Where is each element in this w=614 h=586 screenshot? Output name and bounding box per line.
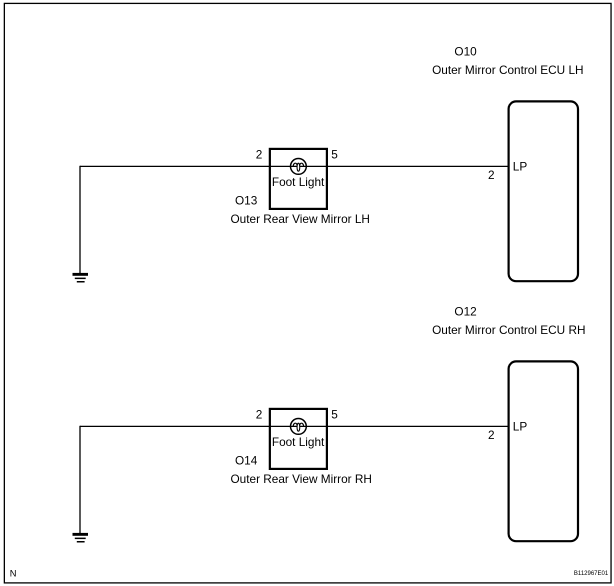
ground: [73, 533, 89, 543]
svg-text:Foot Light: Foot Light: [272, 435, 325, 449]
svg-text:Outer Rear View Mirror RH: Outer Rear View Mirror RH: [231, 472, 372, 486]
svg-text:5: 5: [331, 148, 338, 162]
foot light O13 box: [270, 149, 327, 209]
svg-text:O14: O14: [235, 453, 258, 467]
svg-text:N: N: [10, 569, 17, 579]
wire: through foot light O14: [270, 425, 327, 427]
svg-text:5: 5: [331, 408, 338, 422]
lamp symbol (foot light bulb): [291, 159, 307, 175]
svg-text:2: 2: [488, 168, 495, 182]
svg-text:O10: O10: [454, 44, 477, 58]
svg-text:LP: LP: [513, 420, 528, 434]
wire: ground riser to foot light O13 pin 2: [80, 165, 270, 167]
ECU connector O12: [509, 361, 578, 541]
wire: through foot light O13: [270, 165, 327, 167]
svg-text:Outer Mirror Control ECU LH: Outer Mirror Control ECU LH: [432, 63, 583, 77]
svg-text:LP: LP: [513, 160, 528, 174]
svg-text:O13: O13: [235, 193, 258, 207]
svg-text:Outer Mirror Control ECU RH: Outer Mirror Control ECU RH: [432, 323, 585, 337]
svg-text:2: 2: [256, 408, 263, 422]
ground: [73, 273, 89, 283]
wire: vertical drop to ground: [79, 166, 81, 274]
wire: vertical drop to ground: [79, 426, 81, 534]
wire: ground riser to foot light O14 pin 2: [80, 425, 270, 427]
lamp symbol (foot light bulb): [291, 419, 307, 435]
foot light O14 box: [270, 409, 327, 469]
svg-text:2: 2: [488, 428, 495, 442]
svg-text:Outer Rear View Mirror LH: Outer Rear View Mirror LH: [231, 212, 370, 226]
svg-text:B112967E01: B112967E01: [574, 571, 609, 577]
wire: foot light O14 pin 5 to ECU O12 pin 2: [326, 425, 508, 427]
svg-text:O12: O12: [454, 304, 476, 318]
svg-text:2: 2: [256, 148, 263, 162]
ECU connector O10: [509, 101, 578, 281]
wire: foot light O13 pin 5 to ECU O10 pin 2: [326, 165, 508, 167]
svg-text:Foot Light: Foot Light: [272, 175, 325, 189]
